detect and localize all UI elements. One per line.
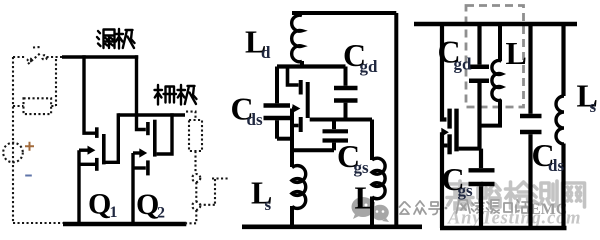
svg-text:d: d — [261, 43, 271, 62]
svg-text:1: 1 — [110, 204, 118, 221]
svg-text:ds: ds — [548, 156, 564, 175]
svg-text:Q: Q — [136, 188, 159, 221]
svg-text:gd: gd — [454, 55, 473, 74]
svg-text:L: L — [355, 180, 376, 216]
svg-text:s: s — [590, 97, 597, 116]
svg-text:gs: gs — [354, 158, 370, 177]
svg-text:gd: gd — [360, 57, 379, 76]
svg-text:2: 2 — [157, 205, 165, 222]
svg-text:ds: ds — [247, 110, 263, 129]
svg-text:s: s — [265, 195, 272, 214]
svg-text:gs: gs — [458, 181, 474, 200]
svg-text:L: L — [506, 35, 527, 71]
svg-text:Q: Q — [88, 188, 111, 221]
